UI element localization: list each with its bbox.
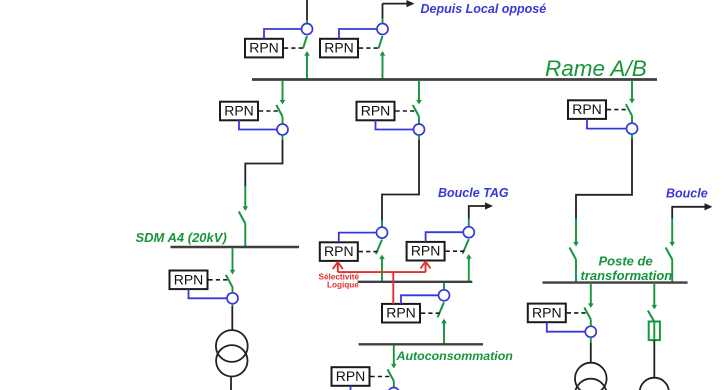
wire below CT3 (green) — [282, 135, 284, 140]
wire jog to TAG feeder (black) — [382, 140, 419, 220]
svg-text:RPN: RPN — [572, 101, 602, 117]
sensor ring CT7 — [463, 227, 474, 238]
feeder M chevron — [416, 100, 422, 105]
fuse F1 body — [649, 322, 660, 341]
disconnect S3 blade — [666, 248, 673, 260]
svg-text:RPN: RPN — [324, 40, 354, 56]
svg-text:SDM A4 (20kV): SDM A4 (20kV) — [136, 230, 227, 245]
svg-text:Autoconsommation: Autoconsommation — [396, 349, 514, 363]
dashed control link R10-Q10 — [607, 109, 628, 111]
incoming line 2 wire (green) — [382, 19, 384, 25]
disconnect S1 blade — [239, 212, 246, 224]
disconnect S4 blade — [648, 311, 655, 322]
blue wire R6-CT6 — [339, 233, 377, 243]
wire above CT6 (green) — [381, 220, 383, 227]
dashed control link R9-Q9 — [371, 376, 391, 378]
breaker Q3 blade — [276, 105, 282, 117]
breaker Q7 chevron — [466, 254, 472, 259]
svg-text:RPN: RPN — [532, 304, 562, 320]
breaker Q4 blade — [226, 275, 233, 287]
wire jog to Poste feeder (black) — [576, 139, 632, 219]
sensor ring CT4 — [227, 293, 238, 304]
breaker Q11 blade — [584, 308, 591, 320]
feeder G stub from Autoconsommation bus (green) — [393, 346, 395, 365]
wire Q9 to CT9 (green) — [393, 381, 395, 388]
wire above CT7 (green) — [468, 219, 470, 227]
dashed control link R11-Q11 — [567, 312, 587, 314]
RPN relay box R4 — [170, 271, 208, 290]
sensor ring CT1 — [302, 24, 313, 35]
breaker Q1 blade — [303, 36, 307, 49]
wire Q11 to CT11 (green) — [590, 319, 592, 326]
feeder M stub from Rame bus (green) — [418, 81, 420, 101]
incoming line 1 wire (black) — [306, 0, 308, 20]
RPN relay box R6 — [320, 242, 358, 261]
dashed control link R5-Q5 — [396, 110, 416, 112]
blue wire R10-CT10 — [587, 119, 626, 129]
sensor ring CT2 — [377, 24, 388, 35]
dashed control link R7-Q7 — [446, 250, 466, 252]
blue wire R1-CT1 — [264, 29, 301, 39]
transformer T1 primary winding — [216, 330, 248, 362]
wire to disconnect S1 (green) — [244, 186, 246, 208]
RPN relay box R5 — [357, 102, 395, 121]
breaker Q10 blade — [626, 104, 632, 115]
sensor ring CT8 — [439, 290, 450, 301]
breaker Q6 chevron — [379, 255, 385, 260]
wire below CT11 (green) — [590, 337, 592, 343]
svg-text:RPN: RPN — [174, 271, 204, 287]
wire jog to SDM feeder (black) — [245, 140, 282, 186]
wire S2 to Poste bus (green) — [575, 260, 577, 283]
blue wire R4-CT4 — [189, 289, 227, 298]
breaker Q9 blade — [388, 369, 394, 381]
svg-text:RPN: RPN — [411, 243, 441, 259]
busbar Poste de transformation — [543, 281, 688, 283]
breaker Q1 chevron — [304, 51, 310, 56]
sensor ring CT5 — [414, 124, 425, 135]
svg-text:Boucle TAG: Boucle TAG — [438, 186, 509, 200]
wire to transformer T1 (black) — [231, 306, 233, 331]
transformer T2 secondary winding (clipped) — [575, 379, 607, 390]
disconnect S2 blade — [570, 248, 577, 260]
wire Q10 to CT10 (green) — [631, 116, 633, 124]
feeder P stub from Poste bus (green) — [590, 284, 592, 305]
dashed control link R2-Q2 — [359, 47, 379, 49]
busbar Autoconsommation — [359, 343, 483, 345]
red arrowhead barbs to R6 — [333, 262, 343, 269]
disconnect S1 chevron — [243, 206, 249, 211]
svg-text:Poste de: Poste de — [599, 254, 653, 269]
red control wire horizontal — [338, 271, 426, 273]
feeder H chevron — [629, 99, 635, 104]
svg-text:transformation: transformation — [581, 268, 673, 283]
red arrow shaft to R6 — [337, 262, 339, 272]
arrowhead Depuis Local opposé — [407, 0, 415, 7]
RPN relay box R1 — [245, 39, 283, 58]
busbar TAG — [358, 281, 473, 283]
breaker Q6 blade — [376, 240, 382, 254]
sensor ring CT11 — [585, 326, 596, 337]
disconnect S3 chevron — [669, 242, 675, 247]
busbar SDM A4 — [171, 246, 300, 248]
sensor ring CT9 (clipped) — [388, 388, 399, 390]
sensor ring CT6 — [377, 227, 388, 238]
feeder C chevron — [280, 100, 286, 105]
wire Q6 to TAG bus (green) — [381, 258, 383, 282]
arrowhead Boucle TAG — [485, 202, 493, 209]
breaker Q8 blade — [438, 302, 444, 317]
svg-text:Boucle: Boucle — [666, 187, 708, 201]
feeder D chevron — [230, 270, 236, 275]
wire Q3 to CT3 (green) — [282, 117, 284, 125]
feeder Q stub from Poste bus (green) — [653, 284, 655, 306]
blue wire R11-CT11 — [547, 322, 585, 332]
RPN relay box R8 — [382, 304, 420, 323]
dashed control link R8-Q8 — [421, 312, 440, 314]
busbar Rame A/B — [252, 78, 657, 81]
red arrowhead barbs to R7 — [421, 262, 431, 269]
svg-text:Rame A/B: Rame A/B — [545, 56, 647, 81]
disconnect S2 chevron — [573, 242, 579, 247]
feeder G chevron — [391, 364, 397, 369]
red arrow shaft to R7 — [425, 262, 427, 273]
blue wire R3-CT3 — [239, 120, 277, 129]
wire Q1 to Rame bus (green) — [306, 54, 308, 80]
wire below CT10 (green) — [631, 134, 633, 139]
breaker Q2 chevron — [380, 51, 386, 56]
RPN relay box R7 — [407, 242, 445, 261]
svg-text:RPN: RPN — [336, 368, 366, 384]
svg-text:RPN: RPN — [324, 243, 354, 259]
transformer T2 primary winding — [575, 363, 607, 390]
incoming line 2 wire (black) — [382, 4, 384, 19]
arrow to Depuis Local opposé — [383, 3, 408, 5]
blue wire R7-CT7 — [426, 232, 464, 242]
breaker Q8 chevron — [441, 319, 447, 324]
wire to disconnect S3 (green) — [671, 219, 673, 244]
feeder D stub from SDM bus (green) — [232, 248, 234, 271]
sensor ring CT3 — [277, 124, 288, 135]
wire Q8 to Autoconsommation bus (green) — [443, 321, 445, 345]
feeder Q chevron — [652, 305, 658, 310]
wire below CT5 (green) — [418, 135, 420, 140]
RPN relay box R9 — [332, 367, 370, 386]
transformer T3 winding (clipped) — [640, 378, 669, 390]
dashed control link R3-Q3 — [259, 110, 279, 112]
svg-text:RPN: RPN — [361, 103, 391, 119]
RPN relay box R3 — [220, 102, 258, 121]
dashed control link R1-Q1 — [284, 47, 304, 49]
wire to transformer T2 (black) — [590, 343, 592, 363]
wire Q5 to CT5 (green) — [418, 117, 420, 125]
blue wire R5-CT5 — [376, 120, 414, 129]
wire S3 to Poste bus (green) — [671, 260, 673, 283]
wire Q7 to TAG bus (green) — [468, 257, 470, 282]
svg-text:RPN: RPN — [249, 40, 279, 56]
svg-text:RPN: RPN — [386, 305, 416, 321]
wire to Boucle TAG arrow (black) — [469, 206, 486, 219]
incoming line 1 wire (green) — [306, 20, 308, 24]
blue wire R2-CT2 — [339, 29, 377, 39]
RPN relay box R2 — [320, 39, 358, 58]
svg-text:Depuis Local opposé: Depuis Local opposé — [421, 2, 547, 16]
feeder H stub from Rame bus (green) — [631, 81, 633, 100]
dashed control link R6-Q6 — [359, 251, 379, 253]
breaker Q7 blade — [463, 239, 469, 253]
wire S1 to SDM bus (green) — [244, 224, 246, 248]
red control wire vertical to R8 — [392, 272, 394, 304]
wire below CT4 (green) — [232, 304, 234, 306]
svg-text:RPN: RPN — [224, 103, 254, 119]
blue wire R8-CT8 — [401, 295, 438, 304]
wire to transformer T3 (black) — [653, 340, 655, 378]
breaker Q5 blade — [413, 105, 419, 117]
transformer T1 secondary winding — [216, 345, 247, 376]
wire Q2 to Rame bus (green) — [382, 54, 384, 80]
wire to Boucle arrow (black) — [672, 207, 705, 219]
breaker Q2 blade — [379, 36, 383, 49]
fuse F1 wire through (green) — [653, 322, 655, 341]
blue wire R9-CT9 — [351, 386, 389, 390]
svg-text:Logique: Logique — [327, 281, 359, 290]
RPN relay box R11 — [528, 304, 566, 323]
dashed control link R4-Q4 — [209, 279, 229, 281]
feeder C stub from Rame bus (green) — [282, 81, 284, 101]
sensor ring CT10 — [627, 123, 638, 134]
wire below T1 (black) — [230, 376, 232, 390]
wire to disconnect S2 (green) — [575, 219, 577, 244]
RPN relay box R10 — [568, 100, 606, 119]
arrowhead Boucle — [705, 203, 713, 210]
wire Q4 to CT4 (green) — [232, 287, 234, 293]
feeder P chevron — [588, 303, 594, 308]
feeder N stub from TAG bus (green) — [443, 283, 445, 290]
